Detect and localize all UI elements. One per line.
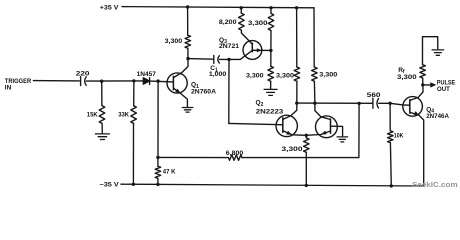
- svg-text:3,300: 3,300: [248, 20, 268, 27]
- wire Q2a base from C1 node: [228, 59, 230, 123]
- wire 6,800 left segment: [158, 156, 229, 158]
- svg-text:3,300: 3,300: [165, 38, 183, 45]
- resistor 10K: [388, 131, 394, 143]
- node rail/33K: [132, 183, 135, 186]
- node top-rail junction 3,300 upper: [269, 6, 272, 9]
- wire to Q3 emitter node: [270, 31, 272, 51]
- svg-text:15K: 15K: [87, 112, 98, 119]
- capacitor C1 left plate: [213, 55, 215, 63]
- wire 47K to -35V rail: [157, 178, 159, 184]
- svg-text:3,300: 3,300: [397, 74, 417, 81]
- resistor 3,300 (Q1 collector load): [185, 35, 191, 48]
- wire 560 to Q4 base node: [379, 102, 390, 104]
- node top-rail junction collector resistor Q2a: [295, 6, 298, 9]
- wire 6,800 right segment up to 560 node: [242, 103, 359, 157]
- svg-text:560: 560: [367, 92, 381, 99]
- node 6,800 branch junction: [156, 156, 159, 159]
- wire Q2a collector node to 560: [297, 102, 373, 104]
- svg-text:6,800: 6,800: [226, 150, 244, 157]
- ground (below 15K): [95, 134, 109, 140]
- transistor Q4 2N746A: [403, 85, 424, 186]
- ground (top of Rf): [432, 50, 444, 55]
- svg-text:3,300: 3,300: [319, 72, 337, 79]
- resistor 3,300 (to ground, col C): [268, 66, 274, 81]
- wire C1 to junction: [220, 58, 230, 60]
- transistor Q2a (half of 2N2223): [276, 115, 306, 136]
- +35V supply rail: [122, 7, 314, 8]
- resistor 15K: [99, 106, 105, 124]
- svg-text:2N760A: 2N760A: [191, 89, 216, 96]
- svg-text:−35 V: −35 V: [100, 182, 120, 189]
- node Q3 emitter junction: [269, 49, 272, 52]
- node top-rail junction 8,200: [240, 6, 243, 9]
- resistor 3,300 (Q2 emitter): [304, 138, 310, 152]
- svg-text:47 K: 47 K: [163, 168, 176, 175]
- node C1 / Q3 base / Q2a base junction: [227, 58, 230, 61]
- svg-text:1N457: 1N457: [137, 71, 157, 78]
- resistor 33K: [131, 106, 137, 124]
- wire node into Q2a collector: [283, 103, 297, 119]
- diode 1N457: [143, 78, 149, 84]
- wire top of R 3,300 (Q1 collector): [187, 7, 189, 35]
- node Q2a collector junction: [295, 101, 298, 104]
- wire Q2b base to ground: [331, 126, 343, 136]
- wire 47K column top: [157, 81, 159, 157]
- svg-text:3,300: 3,300: [282, 146, 303, 153]
- resistor 3,300 (upper, Q3 emitter load): [268, 13, 274, 30]
- wire node to Q4 base: [390, 103, 410, 105]
- resistor Rf 3,300: [420, 65, 426, 78]
- wire C1 node to capacitor: [188, 58, 213, 61]
- node Q1 collector / C1 junction: [186, 57, 189, 60]
- svg-text:IN: IN: [5, 84, 12, 91]
- svg-text:10K: 10K: [394, 133, 404, 140]
- svg-text:8,200: 8,200: [219, 19, 237, 26]
- -35V supply rail: [121, 184, 424, 186]
- wire resistor to ground: [270, 81, 272, 89]
- wire to Q2a base: [229, 123, 283, 124]
- wire top of R 3,300 upper: [270, 8, 272, 14]
- wire top of R 8,200: [240, 8, 242, 13]
- wire emitter node to lower 3,300: [270, 50, 272, 66]
- wire 10K to -35V rail: [389, 143, 392, 186]
- transistor Q1 2N760A: [167, 59, 188, 108]
- pulse out arrow: [423, 84, 431, 86]
- transistor Q3 2N721: [243, 41, 271, 60]
- capacitor 560 right plate (curved): [377, 99, 379, 108]
- node rail/Q2 emitter resistor: [305, 184, 308, 187]
- resistor R 8,200: [239, 13, 245, 30]
- node 33K junction: [132, 79, 135, 82]
- node 47K junction: [156, 79, 159, 82]
- svg-text:33K: 33K: [118, 112, 129, 119]
- node 15K junction: [100, 80, 103, 83]
- wire Q2 emitter node to resistor: [305, 135, 307, 138]
- wire 15K column: [101, 81, 103, 105]
- svg-text:SeekIC.com: SeekIC.com: [412, 180, 458, 189]
- svg-text:3,300: 3,300: [246, 72, 264, 79]
- svg-text:2N746A: 2N746A: [426, 113, 449, 120]
- node rail/10K: [390, 184, 393, 187]
- svg-text:220: 220: [76, 71, 90, 78]
- wire to Q2b collector node: [313, 81, 316, 103]
- resistor 3,300 (Q2b collector load): [312, 67, 318, 81]
- wire 220 to diode: [86, 80, 143, 82]
- wire collector resistor Q2a column: [296, 8, 298, 67]
- node pulse output: [421, 83, 424, 86]
- svg-text:2N721: 2N721: [219, 43, 239, 50]
- wire 33K column top: [133, 81, 135, 106]
- wire resistor to node C1: [187, 48, 189, 58]
- node 560 capacitor junction: [357, 102, 360, 105]
- wire 10K column: [389, 103, 391, 131]
- ground (Q1 emitter): [182, 108, 193, 113]
- wire Rf top to ground link: [423, 37, 438, 65]
- trigger input wire: [33, 80, 79, 82]
- wire junction to Q3 base: [229, 51, 252, 60]
- svg-text:1,000: 1,000: [209, 71, 227, 78]
- wire emitter resistor to -35V rail: [305, 152, 307, 185]
- wire 33K to -35V rail: [132, 123, 134, 184]
- node top-rail junction for Q1 collector resistor: [186, 5, 189, 8]
- ground (Q2b base): [337, 137, 348, 142]
- capacitor C1 right plate (curved): [218, 56, 219, 63]
- resistor 3,300 (Q2a collector load): [294, 67, 300, 81]
- ground (below col C resistor): [264, 89, 277, 95]
- svg-text:2N2223: 2N2223: [256, 108, 284, 115]
- capacitor 220 right plate (curved): [85, 77, 87, 86]
- node rail/47K: [156, 183, 159, 186]
- wire Rf to pulse-out node: [422, 78, 424, 85]
- wire 15K to ground: [101, 123, 103, 132]
- resistor 6,800: [228, 155, 242, 160]
- svg-text:+35 V: +35 V: [100, 5, 119, 12]
- node Q2b collector junction on 560 wire: [313, 102, 316, 105]
- svg-text:OUT: OUT: [437, 86, 450, 93]
- wire 8,200 to Q3 collector: [241, 30, 252, 44]
- wire top rail corner down (col E): [313, 8, 315, 67]
- transistor Q2b (half of 2N2223): [306, 116, 337, 138]
- resistor 47K: [155, 166, 161, 178]
- svg-text:3,300: 3,300: [276, 72, 294, 79]
- wire node into Q2b collector: [315, 103, 330, 119]
- wire to Q2a collector node: [296, 81, 298, 103]
- node Q2 common emitters: [305, 134, 308, 137]
- wire 47K node to resistor: [157, 157, 159, 166]
- capacitor 560 left plate: [372, 98, 374, 108]
- capacitor 220 left plate: [80, 77, 82, 86]
- wire diode to Q1 base: [150, 80, 174, 83]
- node Q4 base / 10K junction: [388, 102, 391, 105]
